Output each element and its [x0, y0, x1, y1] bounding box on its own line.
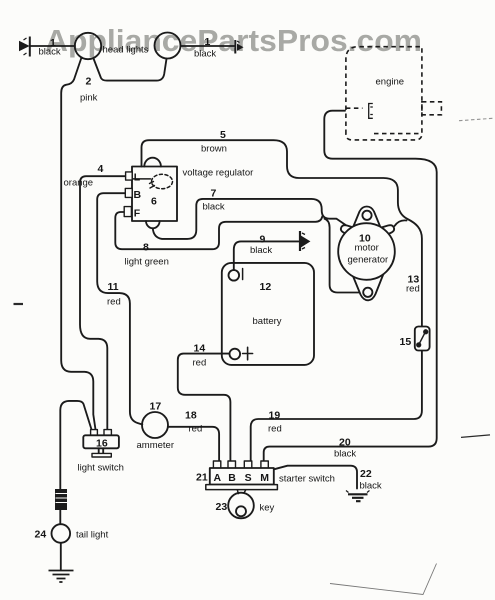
svg-text:14: 14: [194, 343, 206, 355]
svg-text:head lights: head lights: [103, 45, 149, 56]
svg-text:M: M: [260, 472, 269, 484]
svg-text:2: 2: [86, 76, 92, 88]
svg-text:21: 21: [196, 472, 208, 484]
svg-text:23: 23: [216, 501, 228, 513]
svg-text:red: red: [107, 297, 121, 308]
svg-text:5: 5: [220, 129, 226, 141]
svg-text:24: 24: [35, 529, 47, 541]
svg-text:black: black: [250, 245, 272, 256]
svg-text:1: 1: [205, 36, 211, 48]
svg-text:4: 4: [98, 163, 104, 175]
svg-text:black: black: [194, 49, 216, 60]
svg-text:black: black: [360, 481, 382, 492]
svg-text:light switch: light switch: [78, 463, 124, 474]
svg-text:black: black: [334, 449, 356, 460]
svg-text:16: 16: [96, 438, 108, 450]
svg-text:8: 8: [143, 242, 149, 254]
svg-text:brown: brown: [201, 144, 227, 155]
svg-text:red: red: [193, 358, 207, 369]
svg-text:F: F: [134, 208, 141, 220]
svg-text:black: black: [203, 202, 225, 213]
svg-text:18: 18: [185, 410, 197, 422]
svg-text:11: 11: [108, 281, 119, 293]
svg-text:9: 9: [260, 234, 266, 246]
svg-text:generator: generator: [348, 255, 389, 266]
svg-text:battery: battery: [253, 316, 282, 327]
svg-text:12: 12: [260, 281, 272, 293]
svg-text:17: 17: [150, 401, 162, 413]
svg-text:motor: motor: [355, 243, 379, 254]
svg-text:key: key: [260, 503, 275, 514]
svg-text:voltage regulator: voltage regulator: [183, 168, 254, 179]
svg-text:22: 22: [360, 468, 372, 480]
svg-text:pink: pink: [80, 93, 98, 104]
svg-text:S: S: [245, 472, 252, 484]
svg-text:15: 15: [400, 336, 412, 348]
svg-text:6: 6: [151, 196, 157, 208]
svg-text:7: 7: [211, 188, 217, 200]
svg-text:tail light: tail light: [76, 530, 109, 541]
svg-text:20: 20: [339, 437, 351, 449]
svg-text:B: B: [228, 472, 236, 484]
svg-text:L: L: [134, 172, 141, 184]
svg-text:red: red: [406, 284, 420, 295]
svg-text:A: A: [214, 472, 222, 484]
svg-text:1: 1: [50, 37, 56, 49]
svg-text:engine: engine: [376, 77, 405, 88]
svg-text:red: red: [268, 424, 282, 435]
svg-text:19: 19: [269, 410, 281, 422]
svg-text:B: B: [134, 189, 142, 201]
svg-text:ammeter: ammeter: [137, 440, 174, 451]
svg-text:light green: light green: [125, 257, 169, 268]
svg-text:starter switch: starter switch: [279, 474, 335, 485]
svg-text:red: red: [189, 424, 203, 435]
svg-text:orange: orange: [64, 178, 94, 189]
